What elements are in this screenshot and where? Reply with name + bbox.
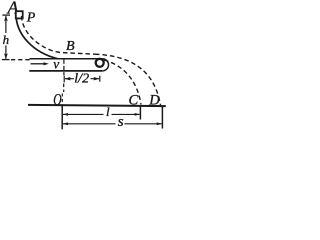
- vertical dashed line at ball start: [63, 60, 65, 76]
- velocity v arrow: [31, 63, 45, 65]
- dashed vertical continuation below l/2: [63, 84, 65, 93]
- dimension s: right tick: [161, 106, 163, 128]
- svg-text:B: B: [66, 39, 75, 54]
- svg-text:l/2: l/2: [74, 71, 89, 86]
- dimension l/2: left tick: [63, 76, 65, 83]
- svg-text:v: v: [53, 56, 59, 71]
- dashed trajectory curve (parallel to ramp): [22, 16, 96, 54]
- dimension l/2: right shaft and arrow: [91, 78, 100, 80]
- outer dashed projectile curve to D: [95, 54, 161, 105]
- inner dashed projectile curve to C: [104, 60, 141, 105]
- svg-text:l: l: [106, 104, 110, 119]
- svg-text:D: D: [148, 93, 160, 109]
- svg-text:h: h: [3, 32, 10, 47]
- ground line: [28, 105, 166, 106]
- dimension h: bottom tick: [2, 59, 10, 61]
- dimension l: right tick: [139, 106, 141, 119]
- dimension l: left arrow: [63, 113, 68, 116]
- dimension l/2: left arrow: [65, 77, 71, 80]
- dashed level line from h to plank: [11, 59, 30, 61]
- svg-text:s: s: [118, 114, 124, 130]
- ball in tube end: [96, 59, 104, 67]
- dashed vertical at O: [61, 94, 63, 105]
- dimension h: top tick: [2, 14, 10, 16]
- plank/tube rounded right end: [102, 59, 108, 71]
- block P (square): [16, 11, 23, 18]
- dimension h: up arrow: [4, 16, 8, 22]
- svg-text:C: C: [129, 93, 139, 109]
- dimension l: right shaft and arrow: [112, 113, 140, 115]
- dimension h: down arrow: [4, 53, 8, 59]
- ramp curve A to B (solid): [16, 18, 58, 59]
- svg-text:O: O: [53, 91, 62, 110]
- dimension h: lower shaft: [5, 46, 7, 59]
- dimension l/2: right tick: [99, 76, 101, 82]
- plank/tube top line: [30, 58, 103, 60]
- dimension s: right shaft and arrow: [125, 123, 162, 125]
- svg-text:P: P: [26, 11, 36, 26]
- dimension ticks below ground: left common tick: [61, 105, 63, 130]
- dimension s: left arrow: [63, 122, 68, 125]
- plank/tube bottom line: [29, 70, 102, 72]
